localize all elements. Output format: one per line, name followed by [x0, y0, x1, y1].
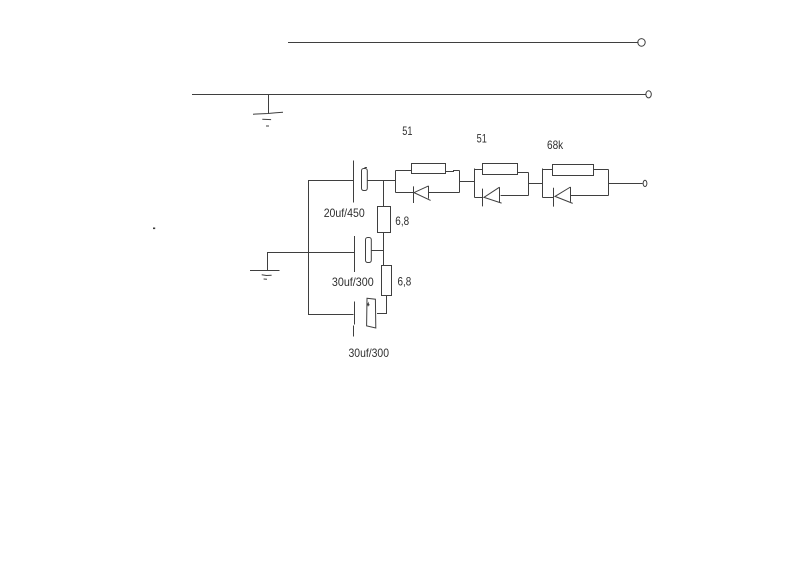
svg-text:51: 51 [477, 131, 487, 145]
wire combo1 top right jog [446, 171, 460, 172]
wire output [609, 183, 643, 185]
svg-text:6,8: 6,8 [398, 275, 412, 289]
wire combo2 to combo3 [529, 183, 543, 185]
resistor R3 51 [412, 164, 446, 174]
wire combo1 top left [396, 170, 412, 172]
terminal T1 [638, 39, 645, 47]
wire combo3 top left [543, 169, 554, 171]
resistor network combo 1 [396, 164, 460, 204]
resistor network combo 2 [475, 164, 529, 207]
svg-text:30uf/300: 30uf/300 [349, 346, 390, 360]
wire combo3 bottom right [571, 195, 609, 197]
wire C1 to node A [367, 180, 395, 182]
wire C2 to bus R1R2 [371, 250, 383, 252]
wire left bus [309, 181, 354, 315]
terminal T2 [646, 91, 651, 98]
wire combo2 right edge [528, 173, 530, 196]
wire combo2 top right [518, 172, 529, 174]
capacitor C3 30uf/300 [354, 298, 376, 336]
wire combo1 right edge [459, 171, 461, 193]
diode D3 [553, 188, 555, 207]
wire combo2 bottom right [501, 195, 529, 197]
svg-text:68k: 68k [547, 138, 564, 152]
svg-text:6,8: 6,8 [395, 214, 409, 228]
svg-text:30uf/300: 30uf/300 [332, 275, 374, 289]
wire top line 2 [192, 94, 646, 96]
wire combo1 bottom [396, 192, 414, 194]
wire ground branch [267, 252, 355, 254]
wire combo1 left edge [395, 171, 397, 193]
resistor R5 68k [553, 165, 594, 176]
wire combo2 top left [475, 169, 483, 171]
svg-text:20uf/450: 20uf/450 [324, 206, 365, 220]
stray dot [153, 228, 155, 230]
resistor R2 6,8 [382, 266, 392, 296]
resistor R4 51 [483, 164, 518, 175]
wire combo3 top right [594, 169, 609, 171]
svg-text:51: 51 [402, 124, 412, 138]
wire combo3 left edge [542, 169, 544, 198]
ground G2 [250, 253, 280, 280]
diode D1 [413, 186, 415, 203]
node A stub down [383, 181, 385, 207]
ground G1 [253, 95, 283, 127]
wire combo3 right edge [608, 170, 610, 196]
terminal T3 [643, 180, 647, 186]
wire combo2 left edge [474, 169, 476, 198]
capacitor C2 30uf/300 [355, 236, 372, 272]
resistor network combo 3 [543, 165, 609, 207]
capacitor C1 20uf/450 [354, 161, 368, 203]
wire R2 to C3 [377, 296, 387, 314]
wire top line 1 [288, 42, 639, 44]
resistor R1 6,8 [378, 207, 391, 233]
diode D2 [482, 189, 484, 207]
wire combo3 bottom left [543, 197, 554, 199]
wire combo2 bottom left [475, 197, 483, 199]
wire R1 to R2 [383, 233, 385, 266]
wire combo1 to combo2 [460, 181, 475, 183]
